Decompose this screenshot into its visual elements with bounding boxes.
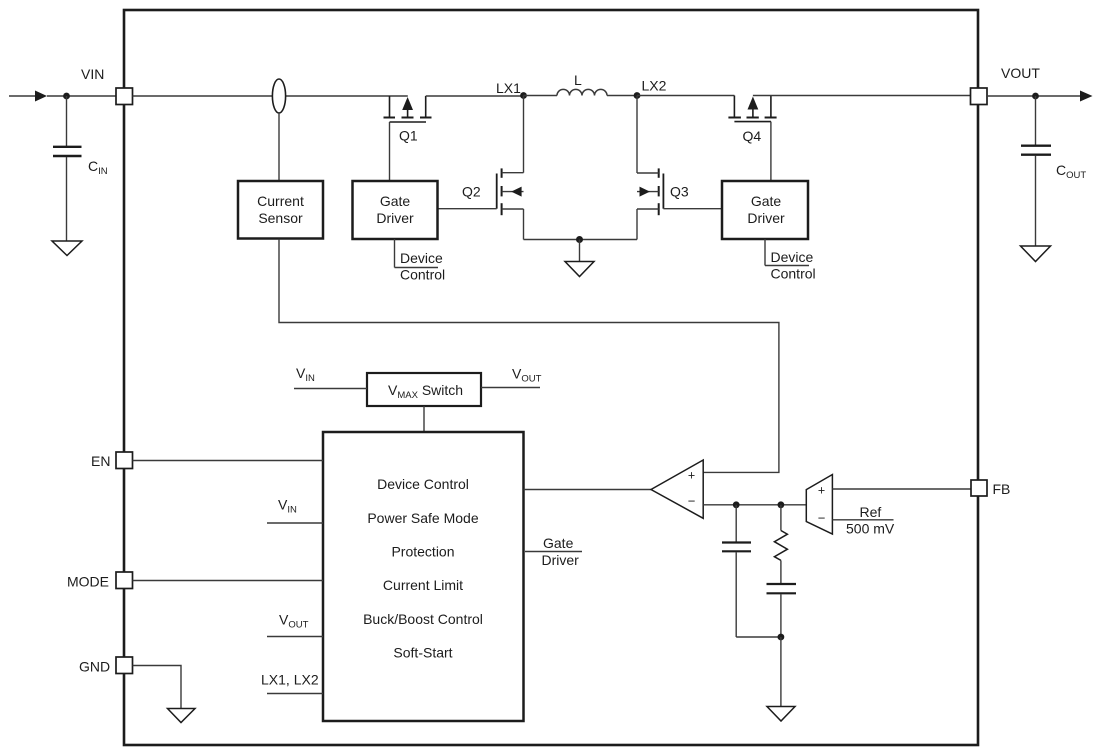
svg-text:LX2: LX2	[642, 78, 667, 94]
svg-text:Driver: Driver	[376, 210, 414, 226]
block Gate Driver (left)	[353, 181, 438, 239]
label VIN (at VMAX switch)	[296, 365, 315, 384]
wire: VIN stub into control block	[267, 522, 323, 524]
node: bridge center junction	[576, 236, 583, 243]
wire: error amp - input	[703, 504, 806, 506]
svg-text:Sensor: Sensor	[258, 210, 303, 226]
svg-text:Control: Control	[771, 266, 816, 282]
wire: LX1 to inductor	[524, 95, 558, 97]
svg-text:500 mV: 500 mV	[846, 521, 895, 537]
svg-text:LX1, LX2: LX1, LX2	[261, 672, 319, 688]
node: junction at comp network resistor	[778, 501, 785, 508]
svg-text:Gate: Gate	[380, 193, 411, 209]
wire: FB pin to reference buffer + input	[832, 488, 971, 490]
wire: LX1,LX2 stub into control block	[267, 693, 323, 695]
svg-text:Device Control: Device Control	[377, 476, 469, 492]
wire: top rail Q1 to LX1	[426, 95, 524, 97]
pin VIN (package pin square)	[116, 88, 133, 105]
svg-text:Q3: Q3	[670, 184, 689, 200]
label Q1	[399, 128, 418, 144]
arrowhead on VIN input	[35, 91, 47, 102]
wire: error amp output to control block	[524, 489, 652, 491]
label VIN (control block input)	[278, 497, 297, 516]
svg-text:+: +	[688, 469, 695, 483]
label VOUT	[1001, 65, 1040, 81]
svg-text:Power Safe Mode: Power Safe Mode	[367, 510, 478, 526]
wire: top rail VIN pin to Q1	[133, 95, 408, 97]
transistor Q4	[728, 96, 776, 122]
wire: junction to ground	[780, 637, 782, 706]
label GND	[79, 659, 110, 675]
svg-text:Driver: Driver	[542, 552, 580, 568]
svg-text:−: −	[688, 494, 696, 509]
comparator U2 (reference buffer)	[806, 475, 832, 535]
wire: bridge between Q2 and Q3 sources	[524, 239, 638, 241]
wire: VOUT stub into control block	[267, 636, 323, 638]
pin FB (package pin square)	[971, 480, 987, 496]
ground (compensation network)	[767, 707, 795, 722]
capacitor C2 (compensation)	[767, 584, 797, 637]
svg-text:Current: Current	[257, 193, 304, 209]
label LX2	[642, 78, 667, 94]
pin GND	[116, 657, 133, 674]
pin MODE	[116, 572, 133, 589]
svg-text:Ref: Ref	[860, 504, 882, 520]
node: junction dot at CIN tap	[63, 93, 70, 100]
svg-text:Device: Device	[771, 249, 814, 265]
svg-text:GND: GND	[79, 659, 110, 675]
label CIN	[88, 158, 108, 177]
node LX2	[634, 92, 641, 99]
label VOUT (control block input)	[279, 612, 309, 631]
arrowhead on VOUT output	[1080, 91, 1093, 102]
svg-text:Control: Control	[400, 267, 445, 283]
wire: VIN lead to pin	[47, 95, 116, 97]
label VIN	[81, 66, 104, 82]
transistor Q3	[637, 168, 663, 215]
svg-text:Soft-Start: Soft-Start	[393, 645, 452, 661]
svg-text:Gate: Gate	[751, 193, 782, 209]
block Gate Driver (right)	[722, 181, 808, 239]
svg-text:+: +	[818, 484, 825, 498]
node: junction below compensation network	[778, 634, 785, 641]
wire: inductor to LX2	[607, 95, 637, 97]
pin VOUT (package pin square)	[971, 88, 988, 105]
wire: top rail LX2 to Q4	[637, 95, 734, 97]
svg-text:−: −	[818, 511, 826, 526]
svg-text:Current Limit: Current Limit	[383, 577, 463, 593]
block Current Sensor	[238, 181, 323, 239]
svg-text:VIN: VIN	[81, 66, 104, 82]
svg-text:Gate: Gate	[543, 535, 574, 551]
label Gate Driver (stub)	[542, 535, 580, 568]
label Device Control (right)	[771, 249, 816, 282]
label LX1	[496, 80, 521, 96]
svg-text:Q2: Q2	[462, 184, 481, 200]
svg-text:EN: EN	[91, 453, 110, 469]
wire: Q4 gate to right Gate Driver	[770, 122, 772, 181]
capacitor C1 (compensation)	[722, 505, 751, 637]
label COUT	[1056, 162, 1086, 181]
capacitor CIN	[53, 96, 82, 241]
wire: VIN stub to VMAX switch	[294, 388, 367, 390]
label EN	[91, 453, 110, 469]
node LX1	[520, 92, 527, 99]
wire: Ref 500mV to reference buffer - input	[832, 519, 893, 521]
wire: VMAX switch to VOUT stub	[481, 387, 540, 389]
op-amp U1 (error amplifier)	[651, 460, 703, 518]
resistor R1 (compensation)	[774, 505, 787, 583]
svg-text:Q1: Q1	[399, 128, 418, 144]
label L	[574, 72, 582, 88]
block Device Control (central)	[323, 432, 524, 721]
wire: VIN input lead	[9, 95, 36, 97]
wire: LX2 down to Q3 drain	[636, 96, 638, 174]
svg-text:LX1: LX1	[496, 80, 521, 96]
wire: top rail Q4 to VOUT pin	[753, 95, 971, 97]
label Ref 500 mV	[846, 504, 895, 537]
wire: VMAX switch to control block	[423, 406, 425, 432]
svg-text:L: L	[574, 72, 582, 88]
svg-text:Protection: Protection	[391, 544, 454, 560]
svg-text:Q4: Q4	[743, 128, 762, 144]
svg-text:Driver: Driver	[747, 210, 785, 226]
transistor Q2	[497, 168, 524, 215]
ground (below COUT)	[1021, 246, 1051, 262]
label LX1, LX2 (control block input)	[261, 672, 319, 688]
wire: Q2 source down to bridge	[523, 209, 525, 240]
wire: C1 bottom to junction	[736, 636, 781, 638]
svg-text:Device: Device	[400, 250, 443, 266]
wire: right Gate Driver Device Control stub	[765, 239, 809, 266]
inductor L	[557, 89, 607, 95]
wire: MODE pin to control block	[133, 580, 324, 582]
wire: current sensor feedback to error amp + input	[279, 239, 779, 473]
ground (below Q2/Q3 bridge)	[565, 262, 594, 277]
wire: Q1 gate to left Gate Driver	[389, 122, 391, 181]
svg-text:MODE: MODE	[67, 574, 109, 590]
node: junction at comp network cap	[733, 501, 740, 508]
label Q2	[462, 184, 481, 200]
wire: left Gate Driver to Q2 gate	[438, 208, 497, 210]
ground (GND pin)	[168, 709, 196, 723]
label FB	[993, 481, 1011, 497]
label Q3	[670, 184, 689, 200]
capacitor COUT	[1021, 96, 1051, 246]
wire: bridge to ground	[579, 240, 581, 262]
transistor Q1	[384, 96, 432, 122]
wire: Q3 source down to bridge	[636, 209, 638, 240]
label Device Control (left)	[400, 250, 445, 283]
wire: GND pin to ground symbol	[133, 666, 182, 709]
chip outer boundary box	[124, 10, 978, 745]
current sense element (ellipse)	[272, 79, 285, 113]
wire: VOUT output lead	[987, 95, 1081, 97]
pin EN	[116, 452, 133, 469]
svg-text:VOUT: VOUT	[1001, 65, 1040, 81]
node: junction dot at COUT tap	[1032, 93, 1039, 100]
wire: LX1 down to Q2 drain	[523, 96, 525, 173]
wire: EN pin to control block	[133, 460, 324, 462]
wire: Q3 gate to right Gate Driver	[663, 208, 722, 210]
block VMAX Switch	[367, 373, 481, 406]
svg-text:Buck/Boost Control: Buck/Boost Control	[363, 611, 483, 627]
label VOUT (at VMAX switch)	[512, 366, 542, 385]
label MODE	[67, 574, 109, 590]
svg-text:FB: FB	[993, 481, 1011, 497]
label Q4	[743, 128, 762, 144]
ground (below CIN)	[52, 241, 82, 256]
wire: sensor to Current Sensor box	[278, 113, 280, 181]
wire: left Gate Driver Device Control stub	[395, 239, 439, 268]
wire: control block Gate Driver stub	[525, 551, 582, 553]
